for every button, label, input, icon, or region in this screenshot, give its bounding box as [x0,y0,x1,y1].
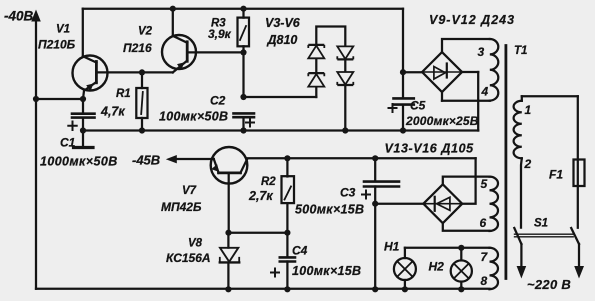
svg-text:2,7к: 2,7к [248,189,273,203]
svg-text:~220 В: ~220 В [527,277,571,292]
svg-text:7: 7 [481,250,489,264]
svg-text:С2: С2 [210,94,226,108]
svg-text:Т1: Т1 [514,45,527,57]
svg-text:П210Б: П210Б [38,38,76,52]
svg-text:6: 6 [480,216,487,230]
svg-text:100мк×15В: 100мк×15В [292,264,361,278]
svg-text:С4: С4 [292,244,308,258]
svg-text:5: 5 [481,177,488,191]
svg-text:КС156А: КС156А [166,251,211,265]
svg-text:V1: V1 [56,24,70,36]
svg-text:V9-V12 Д243: V9-V12 Д243 [429,13,515,27]
svg-text:4: 4 [481,85,489,99]
svg-text:F1: F1 [549,168,563,182]
svg-text:Д810: Д810 [267,33,298,47]
svg-text:С3: С3 [340,186,356,200]
svg-text:1000мк×50В: 1000мк×50В [40,155,118,169]
svg-text:МП42Б: МП42Б [161,200,202,214]
svg-text:Н1: Н1 [384,240,400,254]
svg-text:3,9к: 3,9к [208,27,232,41]
svg-text:500мк×15В: 500мк×15В [295,203,364,217]
svg-text:Н2: Н2 [429,260,445,274]
svg-text:V7: V7 [182,185,197,197]
svg-text:П216: П216 [123,41,152,55]
svg-text:2: 2 [524,157,532,171]
svg-text:С1: С1 [60,136,76,150]
svg-text:S1: S1 [534,218,548,230]
svg-text:-45В: -45В [132,153,160,168]
svg-text:4,7к: 4,7к [100,105,125,119]
svg-text:V3-V6: V3-V6 [265,16,301,30]
svg-text:R2: R2 [261,176,276,188]
svg-text:С5: С5 [410,99,426,113]
svg-text:100мк×50В: 100мк×50В [159,110,228,124]
svg-text:8: 8 [481,274,488,288]
svg-text:V8: V8 [188,238,203,250]
svg-text:-40В: -40В [4,9,34,24]
svg-text:V13-V16 Д105: V13-V16 Д105 [385,142,475,156]
svg-text:3: 3 [478,45,485,59]
svg-text:2000мк×25В: 2000мк×25В [405,114,479,128]
svg-text:V2: V2 [138,26,153,38]
svg-text:1: 1 [525,103,532,117]
svg-text:R1: R1 [116,88,131,100]
